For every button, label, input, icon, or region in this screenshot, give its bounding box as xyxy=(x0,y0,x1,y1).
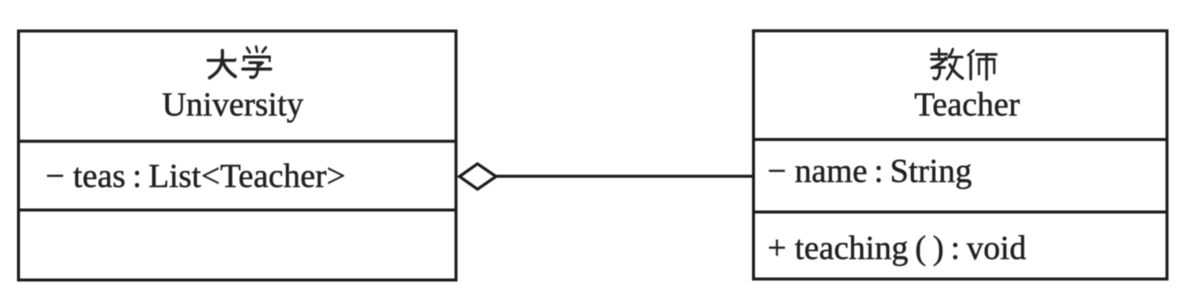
class name text Teacher xyxy=(914,87,1020,124)
svg-text:− name : String: − name : String xyxy=(768,153,973,190)
class name text University xyxy=(162,87,304,124)
class box Teacher (outer rect) xyxy=(754,31,1168,279)
divider Teacher header/attributes xyxy=(754,138,1168,141)
svg-text:+ teaching ( ) : void: + teaching ( ) : void xyxy=(768,230,1027,267)
svg-text:− teas : List<Teacher>: − teas : List<Teacher> xyxy=(46,158,346,195)
class box University (outer rect) xyxy=(19,31,457,280)
CJK label 教 (Teacher header) xyxy=(931,49,962,79)
CJK label 师 (Teacher header) xyxy=(968,50,996,79)
attribute text Teacher: - name : String xyxy=(768,153,973,190)
divider University attributes/operations xyxy=(19,209,457,212)
CJK label 学 (University header) xyxy=(243,47,271,78)
svg-text:University: University xyxy=(162,87,304,124)
svg-text:Teacher: Teacher xyxy=(914,87,1020,124)
divider University header/attributes xyxy=(19,140,457,143)
wire aggregation association line xyxy=(494,175,754,178)
divider Teacher attributes/operations xyxy=(754,211,1168,214)
aggregation diamond at University end xyxy=(460,164,497,189)
CJK label 大 (University header) xyxy=(208,50,236,77)
operation text Teacher: + teaching ( ) : void xyxy=(768,230,1027,267)
attribute text University: - teas : List&lt;Teacher&gt; xyxy=(46,158,346,195)
